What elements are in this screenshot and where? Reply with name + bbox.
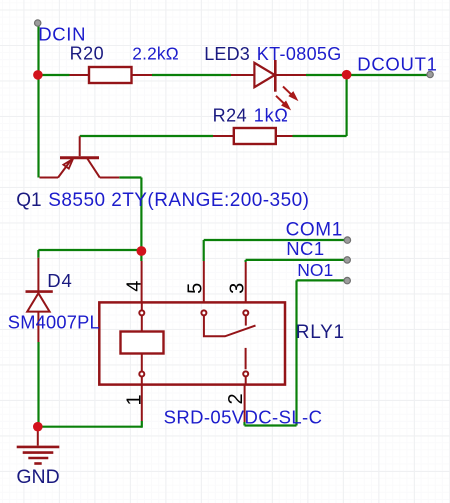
svg-text:SRD-05VDC-SL-C: SRD-05VDC-SL-C xyxy=(164,407,323,428)
svg-text:DCIN: DCIN xyxy=(38,23,86,44)
svg-text:SM4007PL: SM4007PL xyxy=(8,312,100,333)
svg-text:DCOUT1: DCOUT1 xyxy=(357,54,437,75)
svg-text:1kΩ: 1kΩ xyxy=(254,106,289,126)
svg-text:5: 5 xyxy=(185,283,207,294)
svg-text:LED3: LED3 xyxy=(204,44,250,64)
svg-text:3: 3 xyxy=(226,283,248,294)
svg-text:4: 4 xyxy=(123,281,145,292)
svg-text:NO1: NO1 xyxy=(297,260,333,280)
svg-text:R24: R24 xyxy=(213,106,248,126)
svg-text:KT-0805G: KT-0805G xyxy=(257,44,342,64)
svg-text:D4: D4 xyxy=(47,270,73,291)
svg-text:RLY1: RLY1 xyxy=(296,322,345,343)
svg-text:GND: GND xyxy=(16,466,59,488)
svg-text:2.2kΩ: 2.2kΩ xyxy=(132,44,179,64)
svg-text:NC1: NC1 xyxy=(286,238,324,259)
svg-text:1: 1 xyxy=(124,394,146,405)
svg-text:S8550 2TY(RANGE:200-350): S8550 2TY(RANGE:200-350) xyxy=(48,190,309,211)
svg-text:Q1: Q1 xyxy=(16,190,41,211)
svg-text:2: 2 xyxy=(225,393,247,404)
svg-text:R20: R20 xyxy=(70,44,105,64)
